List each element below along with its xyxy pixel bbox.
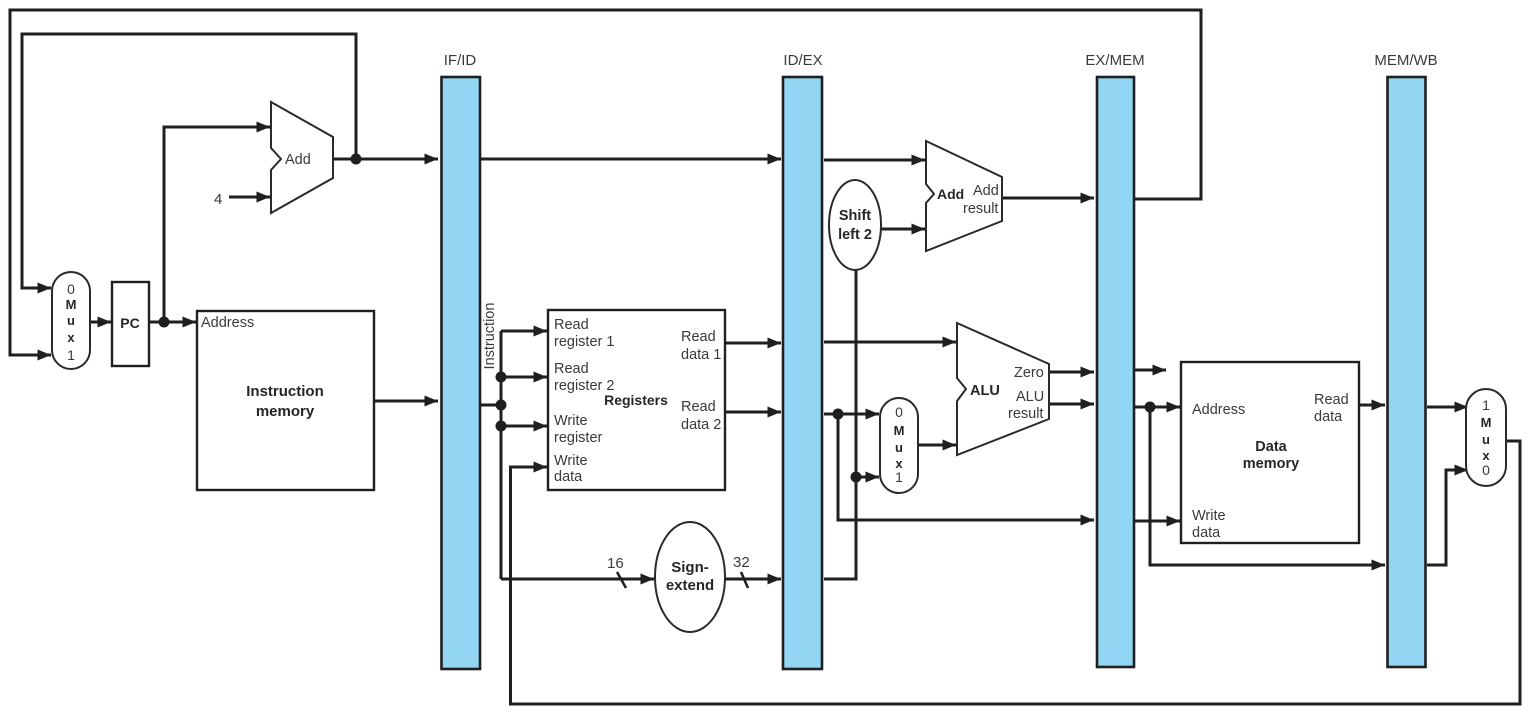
wire: write data from EX/MEM to Data memory Write data [1135, 520, 1180, 523]
svg-text:data: data [554, 469, 583, 485]
svg-text:Instruction: Instruction [482, 303, 498, 370]
wire: ALU result to EX/MEM [1049, 403, 1094, 406]
svg-text:Write: Write [554, 453, 588, 469]
wire: Add A2 result to EX/MEM [1002, 197, 1094, 200]
svg-text:Add: Add [937, 186, 964, 202]
junction: immediate node [851, 472, 862, 483]
bus-width slash 16 [617, 572, 626, 588]
svg-text:Instruction: Instruction [246, 383, 324, 400]
wire: PC output to instruction memory Address [149, 321, 196, 324]
svg-text:MEM/WB: MEM/WB [1374, 52, 1437, 69]
svg-text:IF/ID: IF/ID [444, 52, 477, 69]
wire: instruction from IF/ID to distribution node [481, 404, 501, 407]
wire: Zero stub out of EX/MEM [1135, 369, 1166, 372]
svg-text:x: x [67, 330, 75, 345]
wire: instruction to Write register [501, 425, 547, 428]
junction: PC output node [159, 317, 170, 328]
svg-text:result: result [1008, 406, 1043, 422]
wire: Mux M3 output to ALU bottom input [918, 444, 956, 447]
svg-text:u: u [67, 313, 75, 328]
adder A2 (branch target) [926, 141, 1002, 251]
svg-text:4: 4 [214, 191, 222, 208]
pipeline register MEM/WB [1374, 52, 1437, 667]
svg-text:0: 0 [67, 281, 75, 297]
shift left 2 unit [829, 180, 881, 270]
data memory [1181, 362, 1359, 543]
junction: read data 2 node [833, 409, 844, 420]
wire: branch target from EX/MEM right up over the top to Mux M1 input 1 [10, 10, 1201, 355]
wire: instruction vertical distribution bus [500, 331, 503, 579]
svg-text:M: M [66, 297, 77, 312]
pipeline register EX/MEM [1085, 52, 1144, 667]
wire: read data 2 down and right to EX/MEM (memory write data) [838, 414, 1094, 520]
svg-text:1: 1 [67, 347, 75, 363]
wire: ALU result from EX/MEM to Data memory Address [1135, 406, 1180, 409]
svg-text:M: M [894, 423, 905, 438]
registers file [548, 310, 725, 490]
svg-text:Read: Read [681, 329, 716, 345]
svg-text:ALU: ALU [970, 383, 1000, 399]
svg-text:left 2: left 2 [838, 227, 872, 243]
svg-text:data: data [1314, 409, 1343, 425]
wire: Sign-extend output to ID/EX [725, 578, 781, 581]
svg-text:result: result [963, 201, 998, 217]
adder A1 (PC+4) [271, 102, 333, 213]
svg-text:EX/MEM: EX/MEM [1085, 52, 1144, 69]
junction: instruction node incoming [496, 400, 507, 411]
wire: write-back data from Mux M4 output around bottom to Registers Write data [511, 441, 1521, 704]
wire: sign-extended immediate from ID/EX up to Shift left 2 [824, 270, 856, 579]
svg-text:u: u [895, 440, 903, 455]
svg-text:Shift: Shift [839, 208, 871, 224]
sign-extend unit [655, 522, 725, 632]
svg-text:PC: PC [120, 315, 139, 331]
register PC [112, 282, 149, 366]
junction: instruction node read register 2 [496, 372, 507, 383]
wire: PC+4 feedback from Add output junction to Mux M1 input 0 [22, 34, 356, 288]
pipeline register ID/EX [783, 52, 823, 669]
junction: Add A1 output node [351, 154, 362, 165]
wire: Shift left 2 output to Add A2 bottom input [881, 228, 925, 231]
svg-text:0: 0 [1482, 462, 1490, 478]
svg-text:Sign-: Sign- [671, 559, 709, 576]
wire: immediate to Mux M3 input 1 [856, 476, 879, 479]
svg-text:32: 32 [733, 554, 750, 571]
svg-text:memory: memory [256, 403, 315, 420]
wire: ALU result from MEM/WB to Mux M4 input 0 [1427, 470, 1468, 565]
svg-text:Write: Write [554, 413, 588, 429]
ALU [957, 323, 1049, 455]
wire: Read data 2 from Registers to ID/EX [725, 411, 781, 414]
svg-text:Read: Read [681, 399, 716, 415]
mux M3 (ALU operand B) [880, 398, 918, 493]
svg-text:Zero: Zero [1014, 365, 1044, 381]
svg-text:register: register [554, 430, 603, 446]
svg-text:data 2: data 2 [681, 417, 721, 433]
svg-text:Registers: Registers [604, 392, 668, 408]
svg-text:Write: Write [1192, 508, 1226, 524]
svg-text:extend: extend [666, 577, 714, 594]
wire: read data from MEM/WB to Mux M4 input 1 [1427, 406, 1468, 409]
svg-text:0: 0 [895, 404, 903, 420]
wire: PC output up to Add A1 top input [164, 127, 270, 322]
svg-text:data 1: data 1 [681, 347, 721, 363]
wire: instruction to Read register 2 [501, 376, 547, 379]
wire: Add A1 output to IF/ID [333, 158, 438, 161]
wire: Mux M1 output to PC [90, 321, 111, 324]
wire: Read data 1 from ID/EX to ALU top input [824, 341, 956, 344]
mux M4 (write-back source) [1466, 389, 1506, 486]
bus-width slash 32 [741, 572, 748, 588]
wire: ALU Zero to EX/MEM [1049, 371, 1094, 374]
svg-text:memory: memory [1243, 456, 1299, 472]
wire: Read data 2 from ID/EX to Mux M3 input 0 [824, 413, 879, 416]
svg-text:1: 1 [895, 469, 903, 485]
pipeline register IF/ID [442, 52, 481, 669]
svg-text:Read: Read [554, 317, 589, 333]
wire: constant 4 into Add A1 bottom input [229, 196, 270, 199]
wire: instruction memory output to IF/ID [374, 400, 438, 403]
svg-text:Address: Address [1192, 402, 1245, 418]
wire: Read data 1 from Registers to ID/EX [725, 342, 781, 345]
svg-text:u: u [1482, 432, 1490, 447]
svg-text:ALU: ALU [1016, 389, 1044, 405]
junction: ALU result node [1145, 402, 1156, 413]
mux M1 (PC source) [52, 272, 90, 369]
junction: instruction node write register [496, 421, 507, 432]
wire: instruction to Read register 1 [501, 330, 547, 333]
svg-text:Read: Read [1314, 392, 1349, 408]
svg-text:Add: Add [973, 183, 999, 199]
wire: instruction low 16 bits to Sign-extend [501, 578, 654, 581]
svg-text:data: data [1192, 525, 1221, 541]
svg-text:1: 1 [1482, 397, 1490, 413]
svg-text:register 1: register 1 [554, 334, 614, 350]
wire: PC+4 from ID/EX to Add A2 top input [824, 159, 925, 162]
wire: Data memory Read data to MEM/WB [1359, 404, 1385, 407]
wire: PC+4 from IF/ID to ID/EX [481, 158, 781, 161]
svg-text:Data: Data [1255, 439, 1287, 455]
svg-text:M: M [1481, 415, 1492, 430]
svg-text:Address: Address [201, 315, 254, 331]
svg-text:x: x [1482, 448, 1490, 463]
instruction memory [197, 311, 374, 490]
svg-text:Add: Add [285, 152, 311, 168]
svg-text:16: 16 [607, 555, 624, 572]
svg-text:Read: Read [554, 361, 589, 377]
wire: ALU result bypass down to MEM/WB [1150, 407, 1385, 565]
svg-text:ID/EX: ID/EX [783, 52, 822, 69]
